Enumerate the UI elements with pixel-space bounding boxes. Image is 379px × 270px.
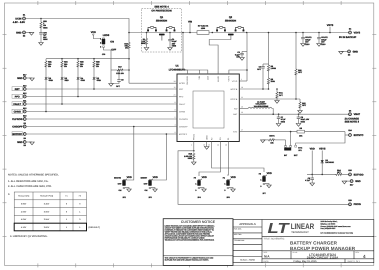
svg-text:SCALE = NONE: SCALE = NONE (240, 258, 256, 261)
wire BSTFB feedback vertical (268, 33, 270, 65)
wire EXT to EXTNTC (296, 132, 345, 146)
svg-text:E11: E11 (23, 99, 26, 102)
svg-text:BSTFB: BSTFB (231, 88, 238, 91)
customer notice box (163, 219, 233, 266)
transistor Q2 label (225, 16, 236, 22)
svg-text:F1: F1 (223, 177, 225, 180)
wire F0 pin to JP4 (199, 142, 221, 177)
svg-text:1%: 1% (64, 65, 67, 68)
node R1 tap (146, 32, 148, 34)
terminal E5 GND (348, 50, 359, 57)
svg-text:OFF: OFF (111, 49, 116, 52)
svg-text:11: 11 (174, 86, 176, 89)
svg-text:E16: E16 (348, 169, 351, 172)
wire PROG to E19 (178, 151, 349, 205)
svg-text:CHGSNS: CHGSNS (186, 75, 189, 85)
wire R16 bottom (128, 50, 130, 84)
net label PFO (12, 94, 23, 98)
wire VSYS vertical to IC (246, 33, 248, 82)
wire D6 to CHRG (45, 80, 47, 112)
ground under R1 (146, 46, 148, 48)
wire R17 left drop (110, 70, 112, 84)
svg-text:0603: 0603 (281, 120, 285, 123)
ground at E17 (342, 181, 347, 184)
net label BSTOFF (12, 132, 23, 136)
wire NTC to jumper (290, 132, 292, 146)
svg-text:VSYS: VSYS (319, 148, 326, 151)
svg-text:EXTVDD: EXTVDD (354, 173, 364, 176)
resistor R23 (77, 58, 84, 68)
resistor R17 (111, 66, 129, 75)
svg-text:EXTNTC: EXTNTC (354, 134, 364, 137)
ground under C6V (39, 43, 44, 46)
transistor Q4 label (156, 16, 167, 22)
jumper JP4 F0 (194, 176, 207, 199)
capacitor C2 (235, 51, 247, 58)
ground at JP7 (265, 184, 271, 188)
node VIN label (188, 20, 192, 33)
svg-text:JP7: JP7 (262, 192, 265, 195)
svg-text:VDD: VDD (267, 172, 272, 175)
svg-text:RSTFB: RSTFB (230, 98, 237, 101)
svg-text:PFO: PFO (15, 95, 20, 98)
svg-text:4.05V: 4.05V (21, 218, 27, 221)
svg-text:5: 5 (175, 116, 176, 119)
U1 left pin labels (179, 82, 189, 136)
ground under R13 (299, 109, 301, 111)
svg-text:SHEET 1 OF 1: SHEET 1 OF 1 (348, 260, 361, 263)
svg-text:LTC Confidential-For Customer: LTC Confidential-For Customer Use Only (321, 232, 354, 235)
svg-text:0805: 0805 (43, 26, 47, 29)
svg-text:JP1: JP1 (298, 149, 301, 152)
svg-text:1: 1 (260, 179, 261, 182)
node CLN tap (212, 32, 214, 34)
ground under COUT2 (318, 39, 320, 44)
node VDD label (310, 148, 315, 175)
svg-text:Fax: (408)434-0507: Fax: (408)434-0507 (321, 227, 336, 230)
svg-text:VSYS: VSYS (327, 24, 334, 27)
node C4 R6 top bar (263, 63, 269, 65)
jumper JP5 F1 (223, 176, 236, 199)
resistor RNTC (263, 134, 286, 146)
svg-text:0: 0 (260, 185, 261, 188)
ground under C8 (298, 119, 300, 124)
svg-text:JP6: JP6 (102, 53, 105, 56)
resistor R7 sense (197, 25, 209, 35)
svg-text:JP3: JP3 (148, 196, 151, 199)
svg-text:CHRG: CHRG (179, 110, 186, 113)
led D3 (61, 68, 70, 82)
node R25 tap (40, 18, 42, 20)
svg-text:GND: GND (17, 141, 23, 144)
svg-text:DATE:: DATE: (264, 260, 270, 263)
svg-text:18: 18 (241, 86, 243, 89)
svg-text:GND: GND (353, 50, 359, 53)
wire EXTNTC jog (345, 134, 349, 136)
svg-text:E19: E19 (348, 199, 351, 202)
svg-text:PROG: PROG (354, 203, 361, 206)
svg-text:4: 4 (175, 124, 176, 127)
svg-text:CHGOFF: CHGOFF (179, 125, 189, 128)
svg-text:1%: 1% (96, 65, 99, 68)
terminal E4 VSYS (339, 28, 360, 39)
svg-text:F0: F0 (194, 177, 196, 180)
resistor R10 OPT (295, 32, 303, 99)
svg-text:BACKUP POWER MANAGER: BACKUP POWER MANAGER (290, 246, 356, 251)
svg-text:9: 9 (175, 101, 176, 104)
svg-text:F0: F0 (79, 195, 81, 198)
terminal E19 PROG (348, 199, 361, 206)
svg-text:ENBST: ENBST (141, 177, 148, 180)
capacitor C1 (168, 33, 177, 48)
svg-text:RNTC: RNTC (269, 134, 275, 137)
svg-text:VIN: VIN (198, 76, 201, 80)
ground at JP2 (125, 188, 131, 192)
wire E5 to ground (341, 50, 348, 52)
approvals rows (234, 227, 245, 242)
svg-text:0603: 0603 (188, 157, 192, 160)
ground at JP3 (151, 188, 157, 192)
svg-text:23: 23 (241, 111, 243, 114)
svg-text:REV.: REV. (356, 251, 360, 254)
svg-text:NOTES: UNLESS OTHERWISE SPECIF: NOTES: UNLESS OTHERWISE SPECIFIED, (8, 174, 59, 177)
svg-text:1: 1 (224, 183, 225, 186)
wire BAT (239, 113, 348, 115)
svg-text:VDD: VDD (202, 176, 207, 179)
svg-text:R17: R17 (118, 66, 121, 69)
svg-text:1%: 1% (48, 65, 51, 68)
svg-text:ON: ON (110, 41, 114, 44)
svg-text:3.95V: 3.95V (21, 203, 27, 206)
ground under R12 (193, 161, 195, 163)
svg-text:VDD: VDD (153, 176, 158, 179)
svg-text:1206: 1206 (201, 27, 205, 30)
svg-text:NTC: NTC (233, 131, 238, 134)
terminal E6 VBAT (345, 109, 361, 123)
resistor R1 (141, 38, 148, 46)
svg-text:E10: E10 (23, 84, 26, 87)
node R17 junction (128, 69, 130, 71)
wire ENCHG tap (126, 127, 134, 181)
svg-text:1%: 1% (80, 65, 83, 68)
node bus junction (128, 58, 130, 60)
resistor R14 OPT (335, 169, 349, 175)
jumper JP3 ENBST (141, 176, 158, 199)
svg-text:F2: F2 (259, 173, 261, 176)
svg-text:3: 3 (175, 131, 176, 134)
wire PFO (26, 96, 177, 98)
svg-text:E15: E15 (23, 114, 26, 117)
node COUT1 (302, 32, 304, 34)
svg-text:GRN: GRN (49, 79, 54, 82)
wire F1 pin to JP5 (227, 142, 230, 177)
svg-text:0805: 0805 (141, 42, 145, 45)
wire GND pin down (206, 142, 208, 147)
svg-text:APPROVALS: APPROVALS (239, 223, 256, 226)
ground at E2 (29, 32, 34, 35)
wire CHRG (26, 111, 177, 113)
table row 4 default (21, 226, 81, 229)
ground under COUT1 (302, 39, 304, 44)
node VSYS rail junction (246, 32, 248, 34)
ground at E17b (30, 78, 35, 81)
svg-text:121k 1%: 121k 1% (116, 72, 124, 75)
wire F2 pin to JP7 (212, 142, 264, 173)
ground at RNTC (261, 140, 266, 143)
svg-text:4: 4 (363, 254, 366, 259)
svg-text:GND: GND (16, 31, 22, 34)
svg-text:VSYS: VSYS (354, 31, 361, 34)
wire VSYS top pin (229, 70, 247, 74)
ground under C1 (169, 41, 171, 48)
wire D2 to RST (93, 80, 95, 89)
capacitor C5 (305, 174, 314, 182)
led D2 (93, 68, 102, 82)
wire VSYS to IC pin (239, 80, 247, 82)
svg-text:CLPROG: CLPROG (12, 118, 23, 121)
svg-text:FAULT: FAULT (13, 103, 21, 106)
svg-text:SEE NOTE 3: SEE NOTE 3 (345, 121, 360, 124)
svg-text:BSTOFF: BSTOFF (12, 133, 22, 136)
svg-text:Si5443DN: Si5443DN (225, 19, 236, 22)
wire ACPR line (129, 82, 177, 84)
table row 1 (21, 203, 81, 206)
capacitor C8 (297, 113, 310, 123)
svg-text:2: 2 (100, 42, 101, 45)
svg-text:BSTOFF: BSTOFF (179, 133, 188, 136)
svg-text:E1: E1 (23, 14, 25, 17)
resistor R11 stub (275, 88, 284, 103)
svg-text:0805: 0805 (43, 38, 47, 41)
svg-text:E6: E6 (349, 109, 351, 112)
address lines (321, 220, 354, 235)
wire D3 to FAULT (61, 80, 63, 104)
node rail corner (128, 32, 130, 34)
wire NTC (239, 131, 345, 133)
svg-text:19: 19 (174, 80, 176, 83)
svg-text:C9: C9 (121, 79, 123, 82)
svg-text:1%: 1% (125, 47, 128, 50)
ground under C7 (278, 119, 280, 124)
wire FAULT (26, 103, 177, 105)
U1 right pin numbers (241, 78, 243, 132)
size cell (264, 251, 271, 259)
svg-text:2: 2 (191, 144, 192, 147)
ground at JP4 (200, 188, 206, 192)
svg-text:(DEFAULT): (DEFAULT) (89, 226, 101, 229)
svg-text:VDD: VDD (310, 148, 315, 151)
terminal E16 EXTVDD (348, 169, 363, 176)
ground at E8 (30, 142, 35, 145)
svg-text:17: 17 (241, 129, 243, 132)
terminal E12 (23, 92, 26, 98)
svg-text:0: 0 (224, 189, 225, 192)
svg-text:4.8V - 5.5V: 4.8V - 5.5V (13, 21, 26, 24)
inductor L1 (248, 100, 272, 108)
diode D5 BAT46WJ (321, 159, 334, 164)
svg-text:JP5: JP5 (226, 196, 229, 199)
svg-text:VDD: VDD (91, 31, 96, 34)
wire PROG pin down (193, 142, 195, 151)
svg-text:GRN: GRN (97, 79, 102, 82)
terminal E10 (23, 84, 26, 90)
svg-text:APP ENG.: APP ENG. (234, 233, 243, 236)
wire IGATE from Q2 gate (209, 35, 231, 74)
resistor R12 PROG (184, 153, 195, 161)
svg-text:0805: 0805 (172, 45, 176, 48)
led D4 (77, 68, 86, 82)
node VSYS label (319, 148, 326, 175)
jumper JP6 LEDS (100, 38, 117, 57)
net label CHRG (12, 109, 23, 113)
svg-text:ACPR: ACPR (179, 82, 185, 85)
node COUT2 (318, 32, 320, 34)
svg-text:E3: E3 (24, 122, 26, 125)
svg-text:GND: GND (355, 180, 361, 183)
svg-text:E13: E13 (23, 107, 26, 110)
svg-text:E8: E8 (24, 144, 26, 147)
svg-text:8: 8 (175, 109, 176, 112)
dashed box OV protection (142, 6, 182, 52)
svg-text:F1: F1 (65, 195, 67, 198)
svg-text:ENCHG: ENCHG (114, 177, 121, 180)
wire D4 to PFO (77, 80, 79, 97)
wire CHGOFF (26, 126, 177, 128)
svg-text:E5: E5 (348, 54, 350, 57)
terminal E17 GND (350, 180, 361, 187)
wire E2 to ground (25, 31, 31, 33)
capacitor C9 (111, 69, 124, 88)
svg-text:RED: RED (65, 79, 70, 82)
svg-text:Si5443DN: Si5443DN (156, 19, 167, 22)
svg-text:SEE NOTE 4: SEE NOTE 4 (154, 6, 169, 9)
ground under R17 (109, 84, 114, 87)
svg-text:3.45V: 3.45V (44, 203, 50, 206)
terminal E1 DCIN (13, 14, 26, 25)
svg-text:E12: E12 (23, 92, 26, 95)
terminal E13 (23, 107, 26, 113)
svg-text:3.: 3. (8, 193, 10, 196)
svg-text:BATTERY CHARGER: BATTERY CHARGER (290, 240, 338, 245)
wire R5 to BSTFB (268, 85, 270, 89)
svg-text:1: 1 (100, 38, 101, 41)
svg-text:VDD: VDD (127, 176, 132, 179)
svg-text:FAULT: FAULT (179, 103, 186, 106)
terminal E8 GND (17, 141, 26, 148)
svg-text:12: 12 (241, 96, 243, 99)
svg-text:JP2: JP2 (122, 196, 125, 199)
svg-text:IGATE: IGATE (217, 75, 220, 82)
svg-text:4.7µF: 4.7µF (305, 179, 311, 182)
wire BSTOFF (26, 133, 177, 135)
node NTC junction (290, 131, 292, 133)
svg-text:E17: E17 (23, 73, 26, 76)
resistor R22 (93, 58, 100, 68)
capacitor COUT2 (317, 33, 327, 46)
svg-text:R8: R8 (299, 127, 301, 130)
svg-text:3: 3 (100, 46, 101, 49)
svg-text:RST: RST (179, 88, 184, 91)
wire VDD rail (307, 173, 336, 175)
wire CLPROG (26, 118, 177, 120)
node VSYS net label (327, 24, 334, 33)
svg-text:VSYS: VSYS (228, 75, 231, 81)
resistor R16 (124, 42, 130, 50)
wire E17b to ground (26, 77, 32, 79)
wire R25 to C6V (40, 29, 42, 33)
svg-text:TITLE: SCHEMATIC: TITLE: SCHEMATIC (264, 238, 285, 241)
wire L1 to BAT (272, 109, 273, 115)
svg-text:RST: RST (15, 88, 20, 91)
wire SW (239, 108, 248, 110)
resistor R6 (267, 64, 276, 72)
table battery voltage options (14, 192, 86, 231)
table row 3 (21, 218, 81, 221)
wire VIN drop (183, 70, 208, 74)
svg-text:F0=1(LI-ION): F0=1(LI-ION) (18, 195, 30, 198)
svg-text:BAT46WJ: BAT46WJ (325, 161, 334, 164)
wire led bus (46, 58, 129, 60)
wire CLN drop (198, 70, 200, 74)
ground under U1 GND (204, 147, 209, 150)
jumper JP2 ENCHG (114, 176, 132, 199)
resistor R21 (45, 59, 52, 68)
U1 right pin labels (230, 80, 238, 134)
svg-text:4. LIMITED BY Q1 VDS RATING.: 4. LIMITED BY Q1 VDS RATING. (10, 235, 48, 238)
capacitor C7 (277, 113, 287, 123)
svg-text:LT: LT (268, 221, 290, 237)
wire E8 to ground (26, 141, 32, 143)
wire R1 drop (146, 33, 148, 38)
U1 top pin labels (186, 75, 231, 85)
svg-text:CLN: CLN (207, 76, 210, 81)
svg-text:13: 13 (225, 144, 227, 147)
op-amp U1 LTC4040EUFD body (169, 65, 240, 142)
node VDD label led (91, 31, 101, 39)
svg-text:CHRG: CHRG (14, 110, 21, 113)
svg-text:SW: SW (234, 108, 237, 111)
svg-text:CHGOFF: CHGOFF (12, 125, 23, 128)
svg-text:GND: GND (17, 77, 23, 80)
ground at JP5 (229, 188, 235, 192)
led D6 (45, 68, 54, 82)
terminal E3 (23, 122, 26, 128)
svg-text:LINEAR: LINEAR (291, 222, 315, 231)
terminal E11 (23, 99, 26, 105)
title block frame (233, 220, 374, 263)
svg-text:PCB DES.: PCB DES. (234, 227, 243, 230)
ground under C5 (311, 180, 313, 184)
ic no cell (293, 251, 340, 259)
svg-text:15: 15 (208, 144, 210, 147)
svg-text:CLPROG: CLPROG (179, 118, 188, 121)
capacitor C6V (39, 31, 47, 41)
wire BSTFB (239, 88, 268, 90)
svg-text:VDD: VDD (231, 176, 236, 179)
svg-text:N/A: N/A (264, 255, 270, 259)
svg-text:LEDS: LEDS (103, 34, 110, 37)
wire E17 to ground (344, 180, 350, 182)
svg-text:0603: 0603 (301, 120, 305, 123)
U1 left pin numbers (174, 80, 176, 134)
wire R6 to R5 (268, 72, 270, 77)
resistor R25 (40, 20, 48, 30)
terminal E2 GND (16, 31, 25, 38)
terminal E17b GND upper (17, 73, 26, 80)
svg-text:E2: E2 (23, 35, 25, 38)
svg-text:E9: E9 (24, 137, 26, 140)
svg-text:F0=0(LiFePO4): F0=0(LiFePO4) (40, 195, 54, 198)
